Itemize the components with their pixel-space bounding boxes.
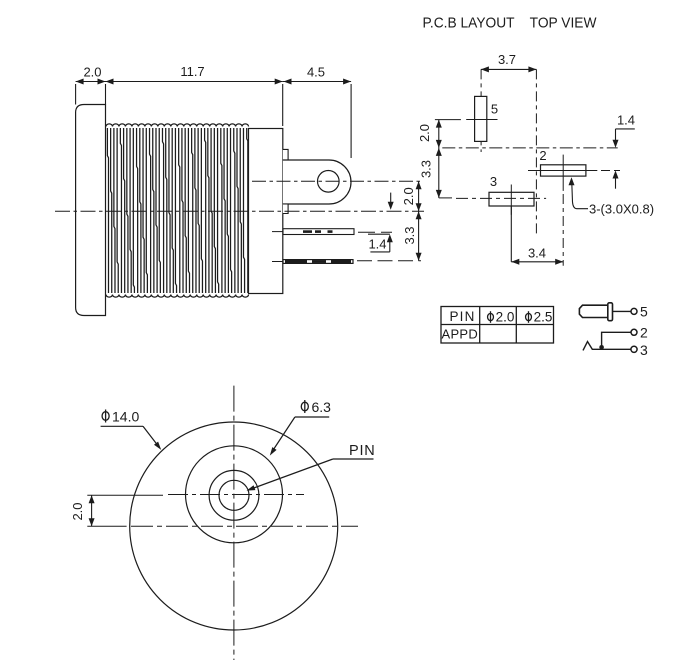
- bottom view: barrel circle phi 6.3: [186, 446, 283, 543]
- schematic: terminal circle 3: [631, 346, 637, 352]
- svg-text:P.C.B LAYOUT TOP VIEW: P.C.B LAYOUT TOP VIEW: [423, 15, 598, 32]
- svg-text:2.5: 2.5: [534, 310, 553, 325]
- svg-text:3.3: 3.3: [419, 160, 434, 178]
- svg-text:5: 5: [491, 102, 498, 117]
- pcb: pad 2 centre dashes to 1.4 arrow: [601, 170, 620, 172]
- bottom view: pin horizontal centerline: [87, 494, 304, 497]
- bottom view: hole circle: [209, 470, 259, 520]
- svg-text:2.0: 2.0: [83, 65, 101, 80]
- pcb: pad 2: [528, 148, 597, 191]
- side view: threaded barrel: [106, 124, 249, 297]
- pcb: dashed vertical right leg: [535, 69, 537, 236]
- svg-text:3.3: 3.3: [402, 226, 417, 244]
- bottom view: dimension 2.0: [70, 495, 95, 526]
- svg-text:1.4: 1.4: [368, 237, 386, 252]
- side view: upper pin centre extension: [358, 231, 392, 233]
- svg-text:2: 2: [640, 325, 648, 341]
- side view: lower locating bump: [283, 204, 288, 214]
- side view: mounting tab with rounded end: [283, 160, 351, 204]
- schematic: junction dot: [599, 345, 604, 350]
- pcb: dashed vertical through pad 5: [480, 69, 482, 152]
- bottom view: label phi 6.3 with leader: [270, 399, 331, 456]
- pcb: pad 3: [489, 174, 534, 215]
- side view: upper terminal pin: [272, 229, 354, 235]
- svg-text:PIN: PIN: [449, 309, 475, 324]
- pcb: pad 5: [466, 96, 498, 141]
- pcb: label 3-(3.0X0.8) with leader: [569, 177, 655, 216]
- side view: top dimension 4.5: [283, 65, 351, 159]
- svg-text:2.0: 2.0: [496, 310, 515, 325]
- svg-text:2.0: 2.0: [70, 502, 85, 520]
- side view: lower pin centre extension: [357, 260, 421, 262]
- pcb: main horizontal centerline: [442, 147, 617, 149]
- table text phi 2.5: [526, 310, 553, 325]
- pcb: pad 3 horizontal dashed line: [439, 197, 546, 200]
- svg-text:14.0: 14.0: [112, 409, 139, 425]
- table: PIN / APPD: [441, 307, 554, 344]
- svg-text:PIN: PIN: [349, 443, 376, 459]
- side view: right dimension line 2.0 / 3.3: [401, 181, 422, 260]
- svg-text:2: 2: [539, 148, 546, 163]
- pcb: left line pad5 level: [435, 119, 461, 121]
- side view: barrel centerline: [55, 210, 424, 212]
- svg-text:2.0: 2.0: [417, 124, 432, 142]
- svg-text:3: 3: [490, 174, 497, 189]
- schematic: wire terminal 2: [602, 332, 631, 348]
- schematic: terminal circle 2: [631, 329, 637, 335]
- bottom view: barrel horizontal centerline: [87, 525, 358, 527]
- bottom view: outer circle (flange phi 14): [130, 422, 338, 630]
- svg-text:11.7: 11.7: [180, 64, 204, 79]
- svg-text:3: 3: [640, 342, 648, 358]
- svg-text:6.3: 6.3: [312, 399, 332, 415]
- bottom view: label PIN with leader: [247, 443, 376, 491]
- svg-text:5: 5: [640, 304, 648, 320]
- side view: flange: [76, 105, 106, 316]
- svg-text:3-(3.0X0.8): 3-(3.0X0.8): [589, 202, 654, 217]
- schematic: spring contact and wire to terminal 3: [583, 342, 631, 351]
- svg-text:1.4: 1.4: [617, 113, 635, 128]
- side view: top dimension 11.7: [106, 64, 283, 126]
- pcb: left dimension 2.0 / 3.3: [417, 120, 442, 198]
- side view: top dimension 2.0: [76, 65, 106, 105]
- side view: lower terminal pin: [272, 260, 353, 264]
- side view: body section: [249, 129, 283, 294]
- side view: dimension 1.4 (pin offset) leader arrows: [368, 193, 394, 252]
- bottom view: label phi 14.0 with leader: [101, 409, 162, 450]
- side view: pin/tab centerline: [252, 180, 421, 182]
- svg-text:APPD: APPD: [441, 327, 478, 342]
- svg-text:4.5: 4.5: [307, 65, 325, 80]
- side view: tab hole: [318, 171, 340, 193]
- schematic: wire to terminal 5: [613, 310, 631, 312]
- svg-text:2.0: 2.0: [401, 187, 416, 205]
- pcb: dimension 3.7: [481, 52, 537, 72]
- svg-text:3.7: 3.7: [498, 52, 516, 67]
- bottom view: vertical centerline: [233, 386, 235, 660]
- svg-text:3.4: 3.4: [528, 246, 546, 261]
- schematic: terminal circle 5: [631, 308, 637, 314]
- pcb: dimension 1.4 (pad2 offset): [613, 113, 636, 189]
- side view: upper locating bump: [283, 149, 288, 160]
- bottom view: centre pin circle: [219, 480, 249, 510]
- pcb: dimension 3.4: [511, 194, 563, 266]
- schematic: plug body (pin 5): [579, 303, 612, 321]
- table text phi 2.0: [488, 310, 515, 325]
